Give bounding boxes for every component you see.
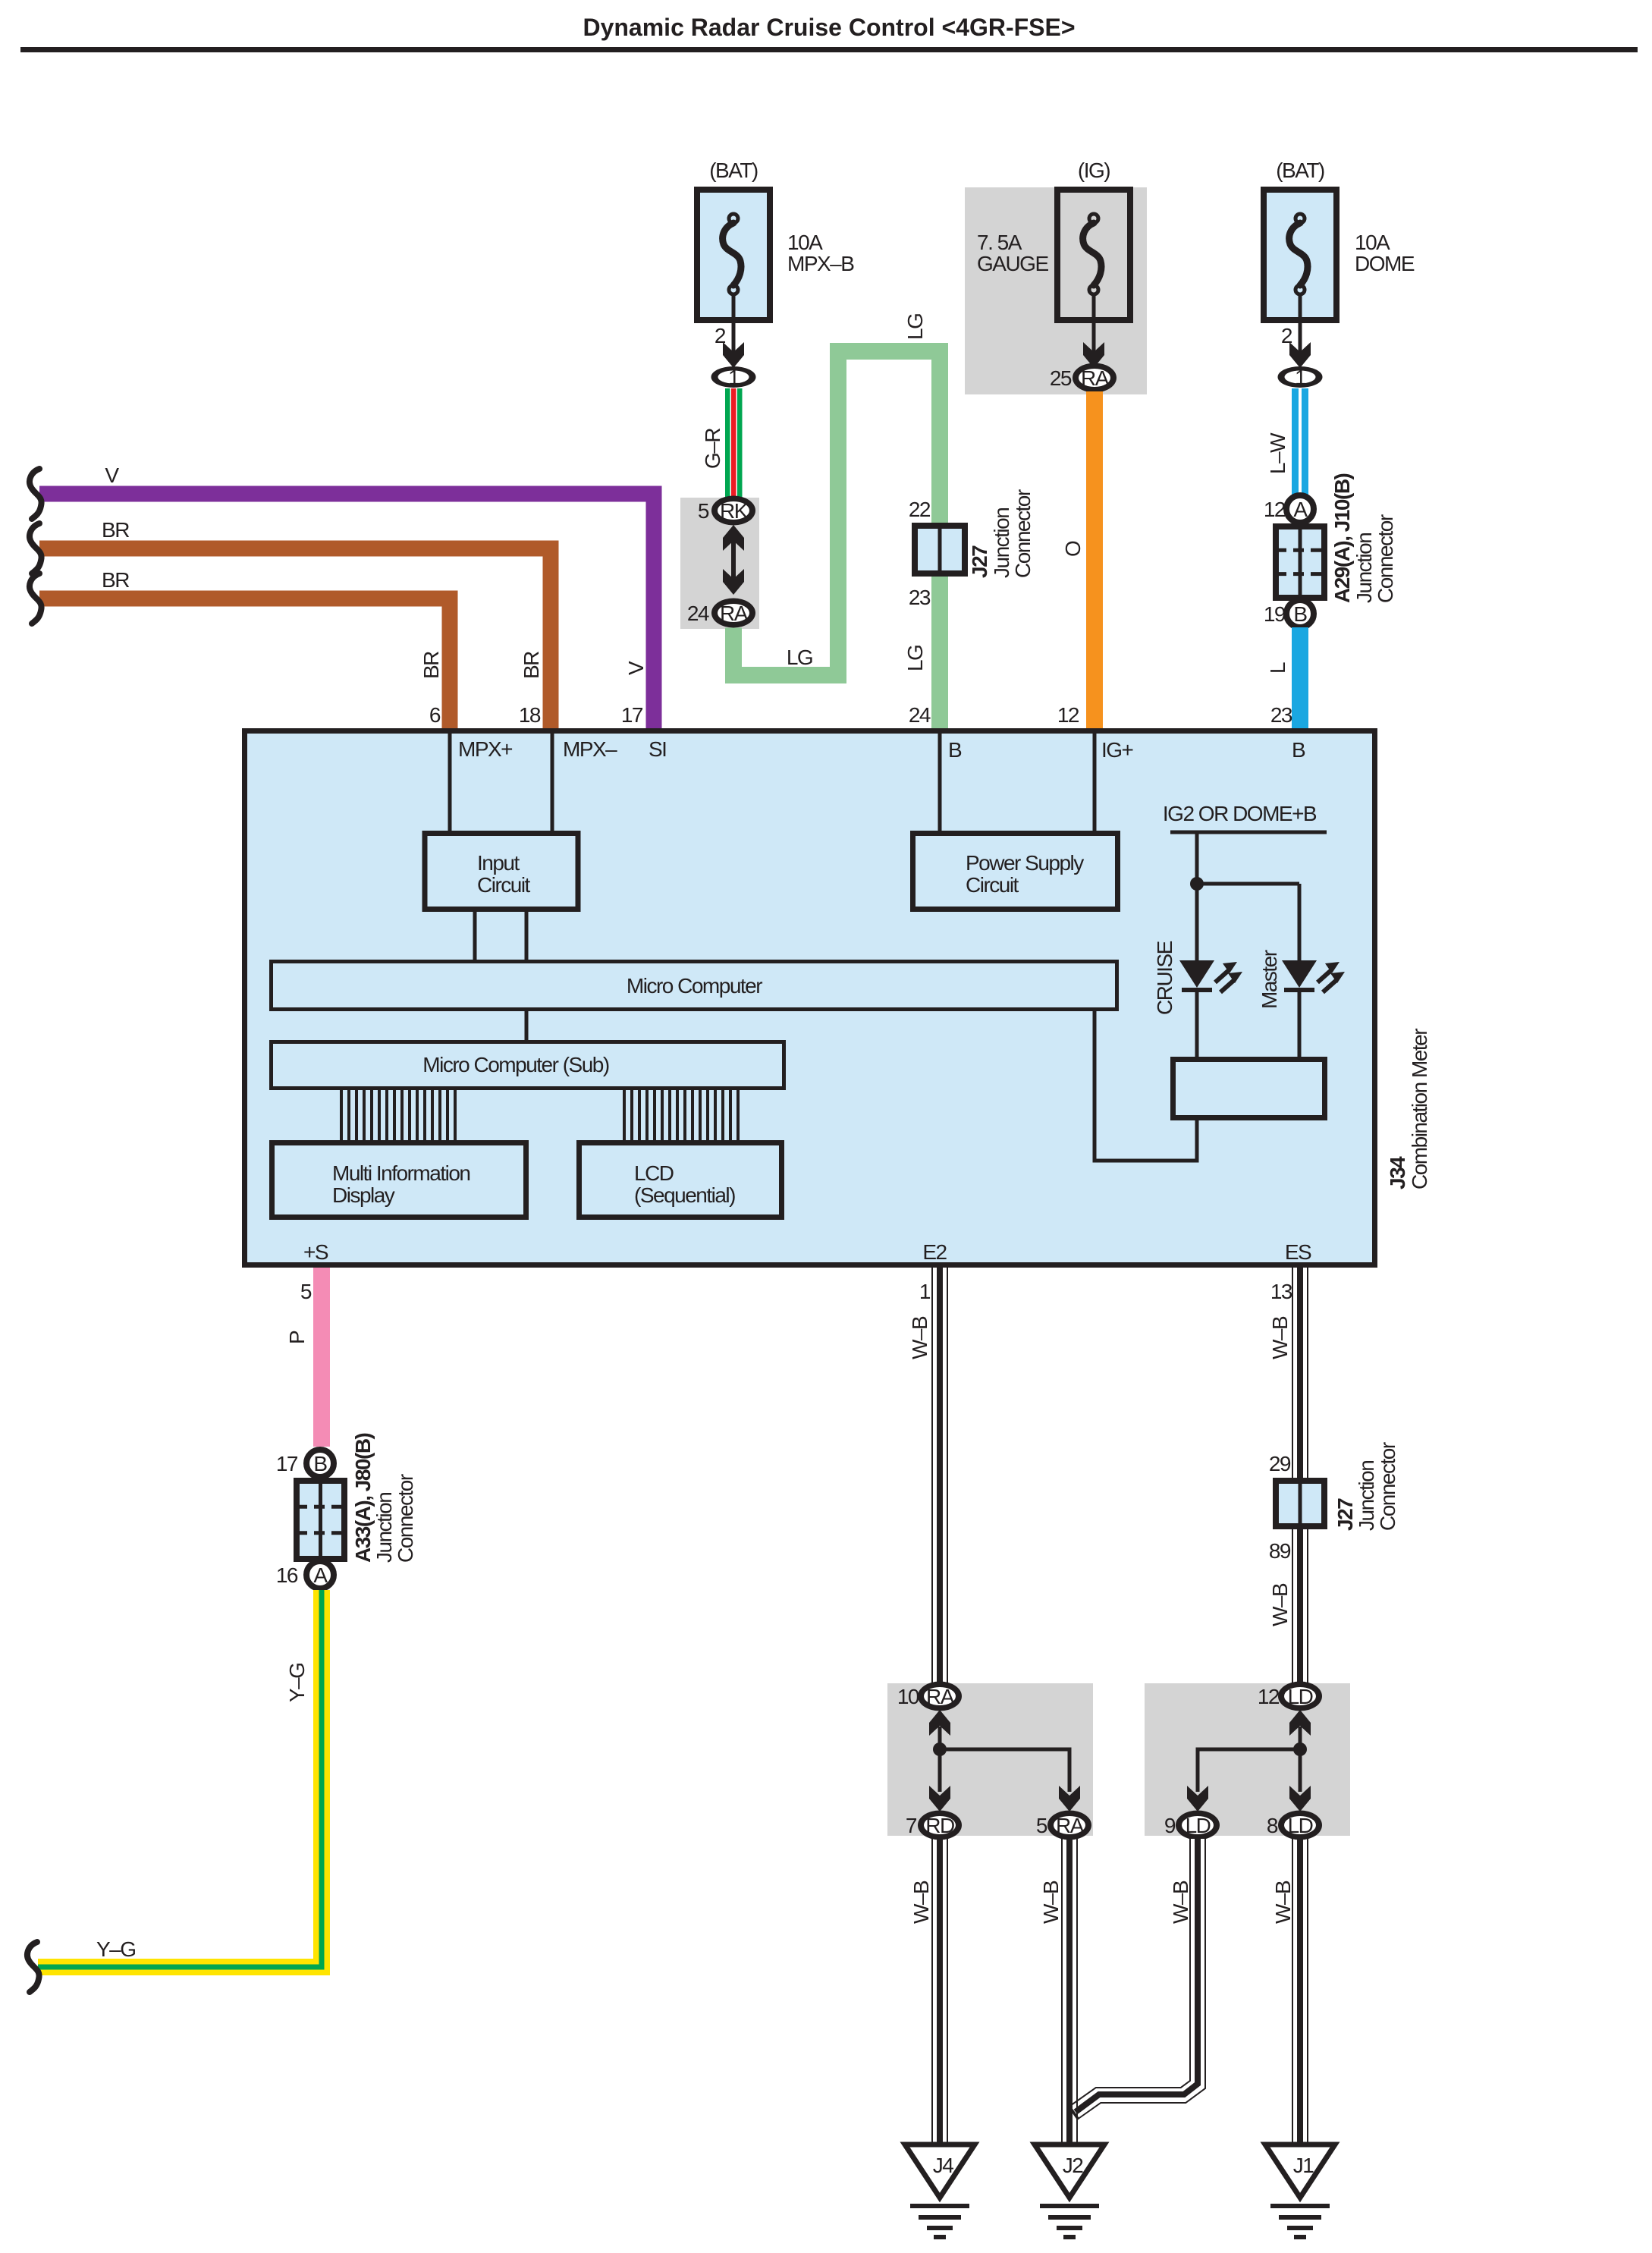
svg-text:9: 9	[1164, 1814, 1176, 1837]
svg-text:Connector: Connector	[1376, 1442, 1399, 1531]
svg-text:MPX–B: MPX–B	[787, 252, 854, 275]
power supply circuit box	[913, 834, 1118, 910]
svg-text:A33(A), J80(B): A33(A), J80(B)	[351, 1433, 375, 1563]
svg-text:V: V	[624, 661, 648, 675]
ribbon bus sub to multi information display	[341, 1089, 455, 1140]
svg-text:W–B: W–B	[1039, 1881, 1063, 1924]
svg-text:ES: ES	[1285, 1240, 1311, 1264]
connector circle A	[1286, 495, 1314, 523]
connector oval RD (7)	[918, 1811, 962, 1840]
ground J4	[905, 2145, 975, 2237]
svg-text:B: B	[948, 738, 962, 762]
double arrow between RK and RA	[723, 525, 744, 551]
svg-text:W–B: W–B	[909, 1881, 933, 1924]
svg-text:19: 19	[1264, 602, 1286, 626]
svg-text:B: B	[1293, 602, 1307, 626]
connector oval RK	[711, 496, 755, 526]
svg-text:BR: BR	[102, 568, 129, 592]
wire BR (lower) to meter pin 6	[39, 599, 450, 728]
svg-text:10: 10	[897, 1685, 919, 1708]
wire L-W from connector 1 to A	[1292, 388, 1308, 495]
svg-text:(IG): (IG)	[1078, 159, 1110, 182]
wire BR (upper) to meter pin 18	[39, 548, 551, 728]
svg-text:12: 12	[1057, 703, 1079, 727]
svg-text:Connector: Connector	[1374, 514, 1397, 603]
svg-text:Micro Computer: Micro Computer	[627, 974, 762, 998]
svg-text:18: 18	[519, 703, 541, 727]
wire W-B from ES pin 13 through J27 to 12 LD	[1292, 1268, 1308, 1685]
svg-text:V: V	[105, 463, 119, 487]
micro computer (sub) box	[272, 1042, 784, 1089]
LED CRUISE	[1179, 960, 1242, 992]
svg-text:Y–G: Y–G	[96, 1937, 136, 1961]
connector oval LD (9)	[1176, 1811, 1220, 1840]
svg-text:GAUGE: GAUGE	[977, 252, 1048, 275]
arrow down into 5 RA	[1059, 1786, 1080, 1812]
svg-text:Micro Computer (Sub): Micro Computer (Sub)	[422, 1053, 609, 1076]
male connector arrow into 1	[1289, 342, 1311, 368]
wire O from RA to meter pin 12	[1086, 391, 1103, 728]
svg-text:Circuit: Circuit	[477, 873, 531, 897]
arrow up into 10 RA	[929, 1710, 950, 1736]
svg-text:17: 17	[276, 1452, 298, 1475]
fuse 7.5A GAUGE (IG)	[1057, 190, 1130, 320]
svg-text:23: 23	[909, 586, 931, 609]
svg-text:BR: BR	[520, 652, 543, 679]
svg-text:B: B	[313, 1452, 327, 1475]
svg-text:6: 6	[429, 703, 441, 727]
svg-text:IG+: IG+	[1101, 738, 1133, 762]
svg-text:RD: RD	[925, 1814, 954, 1837]
svg-text:23: 23	[1270, 703, 1292, 727]
ribbon bus sub to LCD	[624, 1089, 738, 1140]
svg-text:SI: SI	[649, 737, 666, 761]
svg-text:J34: J34	[1386, 1156, 1409, 1189]
svg-text:DOME: DOME	[1355, 252, 1415, 275]
wire from GAUGE fuse to RA	[1092, 294, 1096, 354]
svg-text:7. 5A: 7. 5A	[977, 231, 1022, 254]
connector oval LD (12)	[1278, 1682, 1322, 1711]
wire V from harness to meter pin 17	[39, 494, 654, 728]
svg-text:LD: LD	[1288, 1685, 1313, 1708]
svg-text:Display: Display	[332, 1183, 395, 1207]
IG2 OR DOME+B rail	[1170, 831, 1327, 834]
wire master LED to resistor	[1298, 991, 1302, 1057]
svg-text:MPX+: MPX+	[458, 737, 512, 761]
ground J1	[1265, 2145, 1335, 2237]
cut symbol of V wire	[30, 469, 42, 519]
svg-text:Combination Meter: Combination Meter	[1408, 1029, 1431, 1189]
wire down to 7 RD	[938, 1749, 942, 1792]
arrow down into 8 LD	[1289, 1786, 1311, 1812]
cut symbol of Y-G wire	[27, 1942, 39, 1992]
junction connector A33(A), J80(B)	[297, 1481, 344, 1559]
svg-text:LG: LG	[903, 646, 927, 671]
svg-text:E2: E2	[922, 1240, 947, 1264]
svg-text:24: 24	[687, 602, 709, 625]
wire Y-G from circle A to harness	[38, 1590, 322, 1967]
svg-text:5: 5	[698, 499, 709, 523]
svg-text:(BAT): (BAT)	[709, 159, 758, 182]
svg-text:89: 89	[1269, 1539, 1291, 1563]
wire cruise LED to resistor	[1195, 991, 1199, 1057]
wire micro computer to micro computer (sub)	[525, 1010, 529, 1040]
junction connector J27 (bottom)	[1276, 1481, 1324, 1526]
wire W-B from 7 RD to ground J4	[932, 1839, 947, 2145]
svg-text:Connector: Connector	[1011, 489, 1035, 578]
wire W-B from 8 LD to ground J1	[1292, 1839, 1308, 2145]
svg-text:J27: J27	[968, 545, 991, 578]
svg-text:IG2 OR DOME+B: IG2 OR DOME+B	[1163, 802, 1317, 825]
svg-text:MPX–: MPX–	[563, 737, 617, 761]
svg-text:Circuit: Circuit	[966, 873, 1019, 897]
resistor box	[1173, 1060, 1325, 1118]
junction node dot	[1190, 877, 1204, 891]
svg-text:Dynamic Radar Cruise Control <: Dynamic Radar Cruise Control <4GR-FSE>	[583, 14, 1075, 41]
svg-text:J1: J1	[1293, 2154, 1314, 2177]
svg-text:25: 25	[1050, 366, 1072, 390]
ground J2	[1035, 2145, 1104, 2237]
svg-text:1: 1	[919, 1280, 931, 1303]
gray relay block panel (left)	[887, 1683, 1093, 1836]
svg-text:W–B: W–B	[1268, 1583, 1292, 1626]
svg-text:12: 12	[1258, 1685, 1280, 1708]
wire G-R from connector 1 to RK	[725, 388, 743, 499]
svg-text:RA: RA	[1081, 366, 1110, 390]
connector oval LD (8)	[1278, 1811, 1322, 1840]
LED Master	[1282, 960, 1345, 992]
branch wire to 9 LD	[1198, 1749, 1300, 1792]
svg-text:J27: J27	[1333, 1498, 1357, 1531]
svg-text:12: 12	[1264, 498, 1286, 521]
wire from MPX-B fuse to connector 1	[732, 294, 736, 354]
svg-text:Master: Master	[1258, 950, 1281, 1009]
svg-text:B: B	[1292, 738, 1305, 762]
svg-text:Junction: Junction	[990, 508, 1013, 578]
arrow up into 12 LD	[1289, 1710, 1311, 1736]
svg-text:Connector: Connector	[394, 1474, 417, 1563]
svg-text:LG: LG	[787, 646, 812, 669]
connector circle B (A33)	[306, 1450, 334, 1477]
junction connector J27 (top)	[915, 526, 965, 573]
svg-text:Junction: Junction	[1355, 1461, 1378, 1531]
multi information display box	[272, 1143, 526, 1218]
svg-text:A29(A), J10(B): A29(A), J10(B)	[1330, 473, 1354, 603]
wire rail to cruise LED	[1195, 832, 1199, 960]
svg-text:Multi Information: Multi Information	[332, 1161, 470, 1185]
svg-text:Junction: Junction	[1352, 533, 1376, 603]
svg-text:LD: LD	[1186, 1814, 1211, 1837]
cut symbol of upper BR wire	[30, 523, 42, 573]
svg-text:A: A	[1293, 498, 1308, 521]
wire 10 RA to junction	[938, 1727, 942, 1749]
svg-text:CRUISE: CRUISE	[1153, 941, 1176, 1015]
combination meter box J34	[245, 731, 1375, 1265]
svg-text:RA: RA	[926, 1685, 955, 1708]
svg-text:+S: +S	[303, 1240, 328, 1264]
svg-text:13: 13	[1270, 1280, 1292, 1303]
gray panel with RK / RA connectors	[680, 498, 759, 629]
wire LG U-shape from RA to meter pin 24	[733, 351, 940, 728]
svg-text:W–B: W–B	[1271, 1881, 1295, 1924]
svg-text:LD: LD	[1288, 1814, 1313, 1837]
svg-text:5: 5	[1036, 1814, 1047, 1837]
svg-text:P: P	[285, 1331, 309, 1344]
svg-text:Power Supply: Power Supply	[966, 851, 1084, 875]
junction dot (left block)	[933, 1742, 947, 1756]
male connector arrow into RA	[1083, 342, 1104, 368]
input circuit box	[425, 834, 578, 910]
connector oval 1 (MPX-B)	[711, 366, 756, 388]
svg-text:G–R: G–R	[701, 429, 724, 469]
svg-text:RK: RK	[720, 499, 749, 523]
svg-text:8: 8	[1267, 1814, 1278, 1837]
svg-text:22: 22	[909, 498, 931, 521]
micro computer box	[272, 962, 1117, 1010]
wire down to 8 LD	[1299, 1749, 1302, 1792]
svg-text:LCD: LCD	[634, 1161, 674, 1185]
internal wire MPX- to input circuit	[551, 733, 554, 831]
branch wire to 5 RA	[940, 1749, 1069, 1792]
wire L from B to meter pin 23	[1292, 627, 1308, 728]
svg-text:16: 16	[276, 1563, 298, 1587]
svg-text:Y–G: Y–G	[285, 1663, 309, 1702]
svg-text:L: L	[1266, 662, 1289, 674]
svg-text:10A: 10A	[1355, 231, 1390, 254]
arrow down into 9 LD	[1187, 1786, 1208, 1812]
connector circle A (A33)	[306, 1561, 334, 1588]
connector circle B	[1286, 600, 1314, 627]
svg-text:O: O	[1061, 541, 1085, 557]
wire 12 LD to junction	[1299, 1727, 1302, 1749]
svg-text:10A: 10A	[787, 231, 823, 254]
title rule	[20, 47, 1638, 52]
connector oval RA	[711, 599, 755, 628]
internal wire MPX+ to input circuit	[448, 733, 452, 831]
svg-text:24: 24	[909, 703, 931, 727]
svg-text:J2: J2	[1063, 2154, 1084, 2177]
svg-text:A: A	[313, 1563, 328, 1587]
male connector arrow into 1	[723, 342, 744, 368]
junction dot (right block)	[1293, 1742, 1307, 1756]
svg-text:1: 1	[1295, 366, 1306, 389]
connector oval RA (10)	[918, 1682, 962, 1711]
fuse 10A DOME (BAT)	[1264, 190, 1336, 320]
svg-text:7: 7	[906, 1814, 917, 1837]
svg-text:W–B: W–B	[908, 1316, 931, 1359]
junction connector A29(A), J10(B)	[1276, 526, 1324, 598]
svg-text:BR: BR	[102, 518, 129, 542]
gray relay block panel (right)	[1145, 1683, 1350, 1836]
svg-text:L–W: L–W	[1266, 432, 1289, 474]
internal wire B to power supply	[938, 733, 942, 831]
svg-text:Junction: Junction	[372, 1493, 396, 1563]
svg-text:5: 5	[300, 1280, 312, 1303]
svg-text:(Sequential): (Sequential)	[634, 1183, 735, 1207]
wire P from +S pin 5 to circle B	[313, 1268, 330, 1447]
svg-text:W–B: W–B	[1169, 1881, 1192, 1924]
wire W-B from E2 pin 1 to 10 RA	[932, 1268, 947, 1685]
wires input circuit to micro computer	[473, 909, 477, 960]
svg-text:(BAT): (BAT)	[1276, 159, 1324, 182]
svg-text:W–B: W–B	[1268, 1316, 1292, 1359]
wire W-B from 5 RA to ground J2	[1062, 1839, 1077, 2145]
fuse 7.5A GAUGE (IG) gray panel	[965, 187, 1147, 394]
connector oval 1 (DOME)	[1278, 366, 1323, 388]
LCD (Sequential) box	[579, 1143, 782, 1218]
svg-text:RA: RA	[720, 602, 749, 625]
wire W-B from 9 LD joining J2 wire	[1049, 1839, 1198, 2147]
wire resistor to micro computer	[1095, 1011, 1197, 1161]
cut symbol of lower BR wire	[30, 573, 42, 624]
connector oval RA (5)	[1047, 1811, 1091, 1840]
svg-text:17: 17	[621, 703, 643, 727]
connector oval RA (gauge)	[1073, 363, 1117, 393]
branch wire to master LED	[1197, 882, 1299, 886]
svg-text:BR: BR	[419, 652, 443, 679]
svg-text:1: 1	[728, 366, 740, 389]
internal wire IG+ to power supply	[1093, 733, 1097, 831]
svg-text:J4: J4	[933, 2154, 954, 2177]
svg-text:LG: LG	[903, 314, 927, 340]
svg-text:29: 29	[1269, 1452, 1291, 1475]
fuse 10A MPX-B (BAT)	[697, 190, 770, 320]
wire from DOME fuse to connector 1	[1299, 294, 1302, 354]
arrow down into 7 RD	[929, 1786, 950, 1812]
svg-text:Input: Input	[477, 851, 520, 875]
svg-text:RA: RA	[1056, 1814, 1085, 1837]
